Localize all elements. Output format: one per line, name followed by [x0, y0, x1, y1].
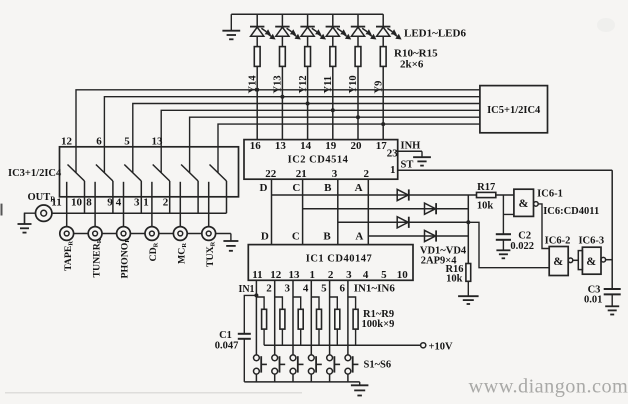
svg-text:IC6-1: IC6-1 [537, 188, 563, 199]
key S5 [327, 355, 333, 361]
svg-text:3: 3 [332, 168, 338, 180]
svg-text:14: 14 [300, 140, 312, 152]
svg-text:B: B [323, 231, 331, 243]
svg-text:0.01: 0.01 [584, 295, 602, 306]
resistor R13 2k [330, 47, 336, 67]
junction Y13 bus node [280, 95, 284, 99]
resistor R4 100k [317, 309, 322, 329]
wire Y14 net (bus to IC5 + control drop) [76, 90, 480, 173]
resistor R1 100k [262, 309, 267, 329]
connector TUX jack [202, 227, 216, 241]
svg-text:IC1 CD40147: IC1 CD40147 [306, 253, 372, 264]
svg-text:12: 12 [270, 269, 282, 281]
key S2 [272, 355, 278, 361]
key S1 [254, 355, 260, 361]
resistor R3 100k [298, 309, 303, 329]
svg-text:17: 17 [376, 140, 388, 152]
resistor R11 2k [280, 47, 286, 67]
svg-text:TUXR: TUXR [205, 241, 217, 267]
svg-text:3: 3 [285, 283, 291, 295]
svg-text:20: 20 [351, 140, 363, 152]
wire B (IC2 pin 3 to IC1) [337, 179, 339, 244]
block IC5+1/2IC4 [480, 86, 548, 133]
key S4 [308, 355, 314, 361]
wire top rail [231, 13, 383, 15]
wire IN6 (IC1 pin to key S6) [347, 280, 349, 355]
junction Y12 bus node [306, 102, 310, 106]
svg-text:D: D [261, 231, 269, 243]
svg-text:4: 4 [116, 197, 122, 209]
svg-text:5: 5 [124, 135, 130, 147]
svg-text:IN1: IN1 [238, 284, 254, 295]
resistor R16 10k [466, 264, 471, 282]
wire Y9 net (bus to IC5 + control drop) [218, 124, 480, 172]
svg-text:OUTR: OUTR [28, 192, 57, 204]
resistor R2 100k [280, 309, 285, 329]
svg-text:D: D [260, 182, 268, 194]
wire Y14 column [256, 14, 258, 26]
wire IC6-1 out to IC6-2 input [538, 204, 549, 249]
svg-text:10: 10 [397, 269, 409, 281]
op IC2 CD4514 box [244, 140, 398, 180]
svg-text:S1~S6: S1~S6 [364, 359, 392, 370]
wire INH (pin23) [398, 150, 422, 152]
ground (keys) [359, 382, 361, 385]
svg-text:16: 16 [250, 140, 262, 152]
wire IN1 to C1 [244, 295, 256, 382]
wire R17 out to IC6-1 input [496, 194, 514, 196]
connector CD jack [145, 227, 159, 241]
svg-text:www.diangon.com: www.diangon.com [469, 376, 628, 398]
wire Y11 column [332, 14, 334, 26]
LED LED4 [326, 26, 340, 28]
LED LED2 [275, 26, 289, 28]
svg-text:13: 13 [289, 269, 301, 281]
svg-text:Y10: Y10 [348, 75, 359, 93]
svg-text:0.022: 0.022 [510, 241, 534, 252]
resistor R15 2k [380, 47, 386, 67]
svg-text:TUNERR: TUNERR [91, 238, 103, 277]
key S3 [290, 355, 296, 361]
junction Y9 bus node [381, 122, 385, 126]
svg-text:1: 1 [310, 269, 316, 281]
block IC3+1/2IC4 box [60, 147, 239, 197]
svg-text:&: & [586, 254, 596, 268]
wire ST rail vertical [611, 170, 613, 289]
wire C2 node drop + jog to IC6-1 2nd input [503, 195, 514, 234]
ground (top rail, LED common cathode) [230, 14, 232, 31]
scan blob [597, 18, 615, 32]
svg-text:C: C [292, 231, 300, 243]
wire D branch line [272, 194, 477, 196]
svg-text:IC3+1/2IC4: IC3+1/2IC4 [8, 168, 62, 179]
svg-text:Y11: Y11 [323, 76, 334, 94]
svg-text:Y12: Y12 [298, 75, 309, 93]
svg-text:100k×9: 100k×9 [362, 319, 395, 330]
wire IC6-3 out to ST rail [606, 259, 613, 261]
junction node X dot [466, 220, 470, 224]
svg-text:2: 2 [328, 269, 334, 281]
left edge mark [1, 204, 3, 216]
wire D (IC2 pin 22 to IC1) [271, 179, 273, 244]
svg-text:IN1~IN6: IN1~IN6 [354, 283, 396, 295]
svg-text:5: 5 [381, 269, 387, 281]
wire node X to IC6-2 input [468, 222, 549, 267]
diode VD1 [397, 189, 408, 200]
svg-text:+10V: +10V [429, 341, 453, 352]
svg-text:Y14: Y14 [247, 75, 258, 94]
svg-text:IC6-2: IC6-2 [545, 236, 571, 247]
resistor R14 2k [355, 47, 361, 67]
connector TAPE jack [60, 227, 74, 241]
gate IC6-1 (&) [514, 189, 534, 216]
svg-text:1: 1 [390, 164, 396, 176]
svg-text:5: 5 [321, 283, 327, 295]
wire Y13 column [281, 14, 283, 26]
svg-text:C2: C2 [518, 231, 531, 242]
terminal +10V [421, 343, 426, 348]
ground (OUT) [24, 213, 26, 224]
svg-text:23: 23 [387, 148, 399, 160]
wire Y10 net (bus to IC5 + control drop) [190, 117, 480, 172]
analog switch TUNER channel [96, 165, 113, 182]
svg-text:13: 13 [275, 140, 287, 152]
resistor R12 2k [305, 47, 311, 67]
svg-text:A: A [355, 231, 363, 243]
wire R branch ch5 [330, 297, 338, 345]
resistor R10 2k [254, 47, 260, 67]
LED LED6 [376, 26, 390, 28]
wire Y10 column [357, 14, 359, 26]
analog switch TAPE channel [68, 165, 85, 182]
svg-text:2: 2 [266, 283, 272, 295]
wire Y12 net (bus to IC5 + control drop) [133, 104, 480, 173]
terminal OUT jack [36, 205, 52, 221]
svg-text:1: 1 [143, 197, 149, 209]
wire Y11 net (bus to IC5 + control drop) [161, 110, 480, 172]
svg-text:13: 13 [152, 135, 164, 147]
wire +10V rail [264, 344, 421, 346]
wire R branch ch2 [275, 297, 283, 345]
junction Y14 bus node [255, 88, 259, 92]
ground (R16) [467, 281, 469, 296]
svg-text:12: 12 [61, 135, 73, 147]
LED LED3 [300, 26, 314, 28]
wire Y12 column [307, 14, 309, 26]
wire IN5 (IC1 pin to key S5) [329, 280, 331, 355]
wire IN4 (IC1 pin to key S4) [310, 280, 312, 355]
wire IN2 (IC1 pin to key S2) [274, 280, 276, 355]
svg-text:10: 10 [71, 197, 83, 209]
wire Y9 column [382, 14, 384, 26]
analog switch PHONO channel [124, 165, 141, 182]
svg-text:22: 22 [265, 168, 277, 180]
diode VD2 [425, 203, 436, 214]
ground (C2) [502, 240, 504, 251]
op IC1 CD40147 box [248, 245, 413, 281]
wire ST (pin1) to IC6-3 output rail [398, 169, 613, 171]
svg-text:21: 21 [296, 168, 307, 180]
svg-text:Y13: Y13 [273, 75, 284, 93]
wire R branch ch3 [293, 297, 301, 345]
resistor R6 100k [353, 309, 358, 329]
svg-text:2k×6: 2k×6 [400, 59, 424, 71]
svg-text:2: 2 [363, 168, 369, 180]
wire IN1 (IC1 pin to key S1) [255, 280, 257, 355]
svg-text:INH: INH [401, 140, 421, 151]
wire R branch ch6 [348, 297, 356, 345]
svg-text:9: 9 [107, 197, 113, 209]
ground (C3) [611, 294, 613, 306]
capacitor C3 0.01 [604, 288, 621, 290]
junction Y11 bus node [331, 108, 335, 112]
svg-text:PHONOR: PHONOR [120, 238, 132, 279]
svg-text:&: & [553, 254, 563, 268]
diode VD4 [425, 230, 436, 241]
svg-text:C: C [292, 182, 300, 194]
svg-text:10k: 10k [477, 201, 494, 212]
svg-text:LED1~LED6: LED1~LED6 [404, 28, 466, 40]
svg-text:IC6:CD4011: IC6:CD4011 [543, 206, 599, 217]
capacitor C2 0.022 [496, 233, 511, 235]
analog switch MC channel [181, 165, 198, 182]
wire C branch line [303, 208, 469, 210]
wire A branch line [368, 235, 468, 237]
wire Y13 net (bus to IC5 + control drop) [104, 97, 480, 173]
svg-text:4: 4 [303, 283, 309, 295]
wire B branch line [338, 221, 469, 223]
svg-text:19: 19 [325, 140, 337, 152]
svg-text:ST: ST [401, 160, 414, 171]
LED LED1 [250, 26, 264, 28]
scan artifact line [5, 392, 302, 394]
svg-text:IC6-3: IC6-3 [578, 236, 604, 247]
svg-text:TAPER: TAPER [63, 241, 75, 271]
wire key common rail [244, 381, 359, 383]
svg-text:R17: R17 [477, 182, 495, 193]
wire A (IC2 pin 2 to IC1) [367, 179, 369, 244]
gate IC6-3 (&) [578, 251, 582, 270]
svg-text:CDR: CDR [148, 242, 160, 261]
gate IC6-2 (&) [549, 247, 568, 276]
junction Y10 bus node [356, 115, 360, 119]
wire jack shield chain [74, 233, 89, 235]
capacitor C1 0.047 [238, 333, 251, 335]
wire R branch ch4 [311, 297, 319, 345]
wire OUT to ground [25, 213, 36, 224]
svg-text:MCR: MCR [177, 243, 189, 264]
svg-text:2: 2 [163, 197, 169, 209]
connector TUNER jack [88, 227, 102, 241]
wire C (IC2 pin 21 to IC1) [302, 179, 304, 244]
connector MC jack [173, 227, 187, 241]
wire IN3 (IC1 pin to key S3) [292, 280, 294, 355]
svg-text:3: 3 [346, 269, 352, 281]
analog switch CD channel [153, 165, 170, 182]
analog switch TUX channel [210, 165, 227, 182]
ground (jack shields) [230, 234, 232, 242]
svg-text:&: & [519, 196, 529, 210]
junction IN1 node [254, 293, 258, 297]
svg-text:4: 4 [363, 269, 369, 281]
svg-text:8: 8 [86, 197, 92, 209]
svg-text:3: 3 [134, 197, 140, 209]
connector PHONO jack [117, 227, 131, 241]
resistor R17 10k [477, 192, 496, 197]
svg-text:B: B [324, 182, 332, 194]
svg-text:Y9: Y9 [373, 81, 384, 94]
key S6 [345, 355, 351, 361]
svg-text:A: A [355, 182, 363, 194]
diode VD3 [397, 217, 408, 228]
resistor R5 100k [335, 309, 340, 329]
svg-text:0.047: 0.047 [215, 340, 239, 351]
svg-text:10k: 10k [446, 273, 463, 284]
ground (INH) [421, 151, 423, 157]
svg-text:IC5+1/2IC4: IC5+1/2IC4 [487, 105, 541, 116]
svg-text:6: 6 [96, 135, 102, 147]
svg-text:6: 6 [339, 283, 345, 295]
wire node X vertical (diode OR) [467, 195, 469, 264]
svg-text:IC2 CD4514: IC2 CD4514 [288, 155, 349, 166]
wire OUT bus [52, 212, 227, 214]
LED LED5 [351, 26, 365, 28]
wire R branch ch1 [256, 297, 264, 345]
wire IC6-2 out to IC6-3 [573, 259, 579, 261]
svg-text:11: 11 [252, 269, 262, 281]
